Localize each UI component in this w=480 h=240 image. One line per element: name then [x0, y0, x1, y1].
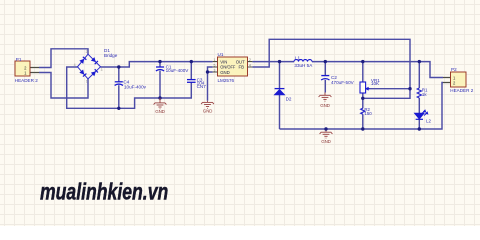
wire C2 lead top [324, 62, 326, 76]
U1 pin numbers [214, 58, 252, 72]
bridge diode upper-left [79, 57, 86, 64]
wire ground-left bus: bridge left to C3 bottom [67, 67, 192, 108]
junction bus gnd [324, 127, 327, 130]
LED L2 [415, 110, 428, 119]
svg-text:P2: P2 [451, 67, 457, 72]
wire C4 bottom lead [118, 85, 120, 108]
bridge pin numbers [74, 50, 103, 84]
svg-text:L1: L1 [295, 55, 301, 60]
wire C4 top lead [118, 67, 120, 82]
junction C3 top [190, 60, 193, 63]
svg-text:P1: P1 [16, 57, 22, 62]
junction C1 top [158, 60, 161, 63]
svg-text:1k: 1k [422, 92, 427, 97]
capacitor C4 (polarized) [115, 82, 123, 86]
svg-text:VIN: VIN [220, 59, 227, 64]
svg-text:10uF-400v: 10uF-400v [124, 85, 147, 90]
svg-text:GND: GND [320, 103, 330, 108]
ground symbol on bottom bus [320, 132, 333, 138]
junction R2 bottom [361, 127, 364, 130]
svg-text:Bridge: Bridge [104, 53, 118, 58]
potentiometer VR1 body [360, 82, 366, 93]
wire FB net: U1 FB up over to VR1 wiper and bottom [252, 39, 410, 98]
svg-text:GND: GND [220, 70, 230, 75]
inductor L1 [294, 60, 312, 62]
svg-text:GND: GND [155, 109, 165, 114]
ground symbol under C2 [319, 93, 332, 102]
diode D2 (freewheel) [275, 89, 285, 95]
connector P2 pin stubs [443, 78, 451, 83]
svg-text:U1: U1 [218, 52, 224, 57]
svg-text:GND: GND [203, 108, 213, 113]
svg-text:4: 4 [249, 63, 251, 67]
svg-text:ON/OFF: ON/OFF [220, 65, 236, 70]
junction C4 bottom [117, 107, 120, 110]
svg-text:2: 2 [86, 50, 88, 54]
junction U1 gnd pin [206, 70, 209, 73]
connector P1 pin stubs [30, 68, 39, 73]
wire net AC1: P1 pin2 to bridge top [39, 49, 88, 68]
svg-text:HEADER 2: HEADER 2 [450, 88, 473, 93]
wire C1 top lead [159, 62, 161, 67]
connector P1 HEADER 2 [15, 61, 30, 76]
junction C2 top [324, 60, 327, 63]
ground symbol under U1 [201, 101, 214, 109]
svg-text:HEADER 2: HEADER 2 [15, 78, 38, 83]
svg-text:33uH 5A: 33uH 5A [294, 63, 313, 68]
wire bus gnd tap [325, 129, 327, 132]
wire bottom-right ground bus to P2 pin2 [280, 83, 444, 130]
bridge diode lower-right [91, 69, 98, 76]
wire net AC2: P1 pin1 to bridge bottom [39, 73, 88, 99]
svg-text:3: 3 [214, 68, 216, 72]
svg-text:LM2576: LM2576 [218, 78, 235, 83]
bridge diode lower-left [79, 69, 86, 76]
svg-text:3: 3 [101, 68, 103, 72]
wire V+ rail: bridge right to U1 VIN [101, 62, 213, 67]
svg-text:D2: D2 [286, 96, 292, 101]
wire OUT rail: U1 OUT through L1 to P2 pin1 [252, 62, 443, 78]
connector P2 HEADER 2 [451, 72, 467, 87]
U1 pin stubs left [213, 62, 218, 72]
svg-text:CN7: CN7 [197, 84, 207, 89]
junction D2 top [278, 60, 281, 63]
wire C1 bottom lead [159, 71, 161, 98]
junction VR1 wiper [408, 87, 411, 90]
resistor R2 zigzag [361, 108, 365, 114]
svg-text:5: 5 [214, 63, 216, 67]
bridge rectifier D1 outline [78, 54, 101, 79]
capacitor C1 (polarized) [156, 67, 164, 71]
VR1 wiper arrow [366, 88, 370, 90]
svg-text:GND: GND [321, 139, 331, 144]
svg-text:150: 150 [364, 111, 372, 116]
svg-text:2: 2 [249, 58, 251, 62]
svg-text:OUT: OUT [236, 59, 245, 64]
bridge diode upper-right [91, 57, 98, 64]
capacitor C2 (polarized) [321, 76, 329, 80]
svg-text:470uF-50V: 470uF-50V [331, 80, 355, 85]
svg-text:10uF-400V: 10uF-400V [166, 68, 190, 73]
wire C3 top lead [190, 62, 192, 80]
wire U1 gnd riser [208, 67, 213, 101]
wire D2 leads [279, 62, 281, 129]
wire LED bottom lead [418, 120, 420, 130]
junction C1 bottom gnd [158, 96, 161, 99]
svg-text:1: 1 [214, 58, 216, 62]
junction LED bottom [418, 127, 421, 130]
svg-text:4: 4 [74, 63, 76, 67]
capacitor C3 (ceramic) [187, 80, 196, 83]
wire VR1 bottom lead / R2 leads [362, 93, 364, 129]
svg-text:mualinhkien.vn: mualinhkien.vn [40, 179, 168, 205]
U1 pin stubs right [248, 62, 253, 67]
junction R1 top [418, 60, 421, 63]
svg-text:10K: 10K [371, 81, 380, 86]
ground symbol under C1 [154, 98, 167, 109]
svg-text:L2: L2 [426, 119, 431, 124]
resistor R1 zigzag [417, 88, 421, 98]
IC U1 LM2576 body [218, 57, 248, 76]
junction VR1 bottom [361, 97, 364, 100]
wire C2 lead to gnd [324, 80, 326, 93]
svg-text:1: 1 [86, 80, 88, 84]
wire R1 top lead [418, 62, 420, 88]
svg-text:FB: FB [239, 65, 245, 70]
wire R1 to LED lead [418, 98, 420, 113]
wire VR1 top lead [362, 62, 364, 82]
junction C4 top [117, 65, 120, 68]
junction VR1 top [361, 60, 364, 63]
